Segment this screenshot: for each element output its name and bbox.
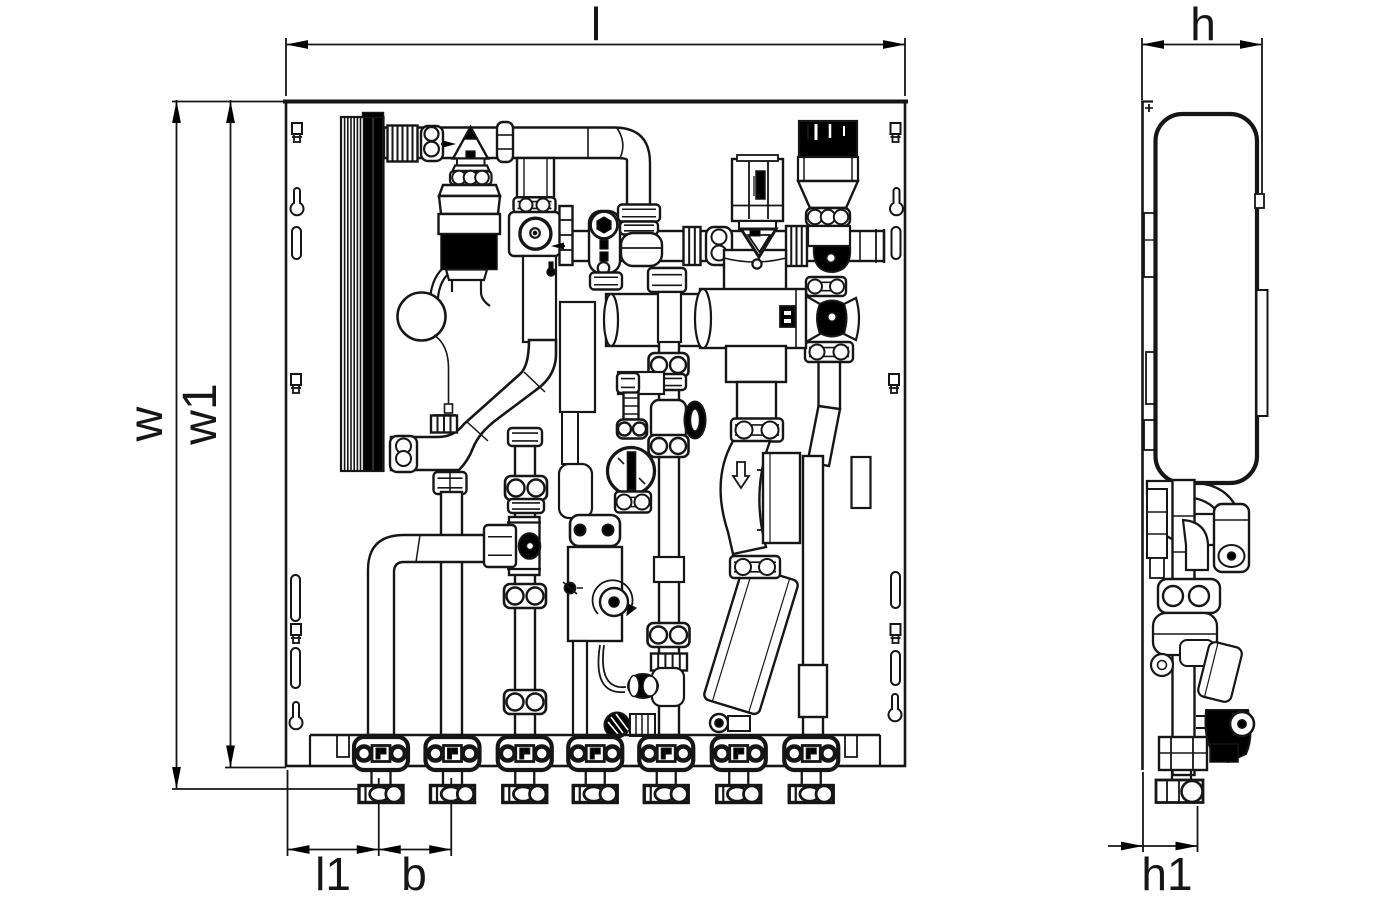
- T-stub with hex on column4: [617, 372, 664, 394]
- bottom connection block 1: [354, 737, 408, 770]
- end cap of middle pipe: [876, 229, 884, 263]
- column5 union c: [648, 623, 690, 647]
- flowmeter plate: [757, 453, 800, 543]
- side cluster: pump cylinder: [1214, 504, 1249, 572]
- pump housing: [509, 212, 560, 256]
- union above bottom pump: [617, 420, 647, 439]
- dimension l (top width of front view): [286, 0, 905, 96]
- vessel side notch: [1255, 194, 1264, 208]
- capillary tube to sensor pod: [598, 645, 626, 692]
- dimensions l1 and b (bottom connection spacing): [288, 770, 452, 900]
- connection stub pipes 1: [372, 770, 391, 786]
- panel slot: right slot lower-a: [891, 572, 900, 608]
- dimension w (overall height, left): [120, 100, 359, 789]
- thermostatic head cone: [798, 181, 858, 208]
- side bracket plate: [1257, 290, 1268, 416]
- column3 union pair lower: [504, 584, 546, 608]
- side union block: [1159, 737, 1207, 770]
- bottom pump volute: [608, 448, 655, 495]
- column5 white segment: [654, 557, 684, 582]
- elbow below mixing valve: [726, 346, 786, 382]
- column3 union bottom: [504, 690, 546, 714]
- svg-text:l1: l1: [315, 848, 351, 900]
- panel slot: right screw middle: [889, 374, 899, 393]
- sensor pod (black rings): [628, 674, 658, 698]
- automatic air vent (triangle): [450, 127, 492, 185]
- column5 hex pair: [656, 374, 686, 390]
- dimension w1 (panel height, left): [174, 100, 286, 768]
- threaded fitting left of motor valve: [684, 227, 701, 265]
- bottom connection block 7: [784, 737, 838, 770]
- side nut stub pipes: [1172, 770, 1191, 780]
- union pair below thermostatic valve: [806, 277, 846, 296]
- union nut below block 5: [644, 786, 688, 803]
- union nut below block 2: [431, 786, 475, 803]
- side mid blobs: [1151, 613, 1217, 676]
- panel slot: left keyhole bottom: [290, 702, 303, 729]
- column5 hex under manifold: [648, 268, 686, 292]
- air separator body: [439, 185, 501, 280]
- canister bottom sensor: [710, 714, 750, 732]
- thermostatic head (black cap): [799, 121, 857, 157]
- union nut below block 3: [503, 786, 547, 803]
- connection stub pipes 3: [515, 770, 534, 786]
- column3 hex at S-pipe: [508, 428, 542, 446]
- separator outlet neck: [452, 280, 490, 306]
- heat exchanger bottom union: [390, 436, 417, 472]
- bracket small parts upper: [1144, 213, 1155, 450]
- flow direction arrow on top pipe: [441, 141, 456, 148]
- bottom connection block 4: [568, 737, 622, 770]
- union on diagonal feed: [805, 342, 853, 362]
- column2 riser pipe: [441, 492, 462, 735]
- side cluster: wide elbow from vessel: [1147, 481, 1243, 545]
- second ball valve on mixing valve outlet: [802, 296, 859, 342]
- bypass valve housing: [589, 211, 620, 274]
- short riser below union: [819, 362, 841, 409]
- left port cylinder of mixing valve: [604, 294, 702, 346]
- column5 cylinder: [658, 292, 681, 342]
- pipe seam marks: [416, 535, 496, 562]
- left sub-column below port: [559, 302, 595, 518]
- svg-text:b: b: [401, 848, 427, 900]
- panel slot: left slot lower-b: [291, 648, 300, 688]
- expansion loop circle: [398, 293, 446, 341]
- slanted filter canister: [703, 565, 799, 716]
- union nut below block 6: [717, 786, 761, 803]
- panel slot: left keyhole top: [290, 188, 303, 215]
- svg-text:l: l: [591, 0, 601, 50]
- connection stub pipes 5: [657, 770, 676, 786]
- striped coupling right of pump: [560, 206, 573, 265]
- top pipe from heat exchanger to right elbow: [384, 128, 650, 207]
- expansion vessel (side): [1156, 114, 1258, 483]
- flow arrow on pump housing: [551, 243, 565, 250]
- bottom connection block 5: [639, 737, 693, 770]
- side small stack left: [1147, 489, 1167, 578]
- pump union pair: [514, 197, 556, 213]
- panel slot: right slot top: [892, 227, 901, 259]
- column4 riser to rail: [573, 641, 587, 735]
- side elbow inner pipe: [1183, 520, 1208, 570]
- panel slot: right keyhole bottom: [889, 694, 902, 721]
- hex below bottom pump: [615, 492, 651, 513]
- panel slot: right screw top: [891, 123, 901, 142]
- panel slot: right screw lower: [891, 624, 901, 643]
- side slanted canister: [1197, 641, 1244, 704]
- mixing valve main cylinder: [695, 289, 806, 348]
- bottom connection block 6: [712, 737, 766, 770]
- neck pipe below elbow: [737, 382, 776, 423]
- side main pipe: [1173, 480, 1195, 775]
- bottom-left horizontal pipe with elbow: [368, 535, 504, 735]
- panel slot: right slot lower-b: [891, 651, 900, 685]
- connection stub pipes 6: [729, 770, 748, 786]
- connection stub pipes 2: [443, 770, 462, 786]
- panel slot: left screw lower: [291, 624, 301, 643]
- column5 sensor bulb: [652, 668, 684, 706]
- plate gauge circle with dot: [593, 580, 636, 616]
- panel slot: left slot top: [292, 227, 301, 259]
- drain valve black circles: [605, 713, 656, 738]
- riser wide segment: [799, 665, 827, 717]
- vertical coupling on top pipe: [497, 122, 513, 162]
- panel slot: left screw middle: [291, 374, 301, 393]
- pump outlet neck: [523, 256, 556, 342]
- column3 valve with black ball: [507, 517, 541, 575]
- circulation pump (front round): [520, 218, 551, 249]
- side union circles: [1158, 579, 1220, 613]
- curved drop pipe with flow arrow: [721, 441, 770, 554]
- ball fitting under elbow: [621, 233, 662, 266]
- side view wall bracket line: [1141, 101, 1153, 770]
- bottom connection block 2: [426, 737, 480, 770]
- union nut below block 1: [359, 786, 403, 803]
- wide vertical pipe above manifold: [724, 250, 786, 290]
- thermostatic valve body (black ball): [808, 226, 850, 272]
- small drain dot left of plate: [563, 582, 583, 594]
- bottom connection block 3: [498, 737, 552, 770]
- svg-text:w1: w1: [174, 383, 227, 445]
- column3 riser pipe: [515, 430, 535, 735]
- hex below bypass housing: [590, 273, 622, 290]
- union nut below block 4: [573, 786, 617, 803]
- panel slot: right keyhole top: [890, 188, 903, 215]
- bottom-right riser pipe: [803, 456, 823, 735]
- motor valve body (triangle): [741, 229, 776, 269]
- controller plate: [568, 547, 622, 641]
- striped rod: [624, 393, 639, 420]
- side bottom hex nut: [1156, 780, 1203, 803]
- plate heat exchanger (hatched block): [341, 113, 384, 472]
- column5 union b: [649, 435, 689, 457]
- bottom mounting rail: [310, 735, 880, 766]
- threaded fitting right of motor valve: [786, 226, 807, 266]
- hex pair under top elbow: [618, 205, 660, 235]
- thermostatic valve union: [806, 208, 850, 226]
- dimension h (top of side view): [1142, 0, 1262, 196]
- motor valve flange: [739, 221, 776, 229]
- wide S-bend pipe from pump to heat exchanger connector: [391, 340, 556, 470]
- panel slot: left slot lower-a: [291, 575, 300, 621]
- elbow hex fitting: [484, 525, 516, 567]
- connection stub pipes 7: [802, 770, 821, 786]
- svg-text:h: h: [1190, 0, 1216, 50]
- canister top union: [730, 556, 780, 578]
- tee hex pair down to riser: [434, 472, 467, 494]
- mounting panel outline (front view): [283, 101, 908, 766]
- motor valve actuator head: [732, 155, 783, 221]
- column3 union pair upper: [505, 476, 547, 513]
- union nut below block 7: [789, 786, 833, 803]
- sensor boss on S-bend elbow: [431, 415, 457, 433]
- union with two sight circles: [421, 126, 443, 161]
- svg-text:h1: h1: [1141, 848, 1192, 900]
- union left of motor valve: [706, 227, 732, 265]
- svg-text:w: w: [120, 406, 173, 442]
- middle horizontal pipe (return line): [572, 231, 884, 261]
- thermostatic head scale band: [798, 157, 858, 181]
- side black valve: [1196, 710, 1254, 762]
- column5 riser pipe: [659, 268, 679, 735]
- column5 threaded: [651, 654, 687, 671]
- threaded union at heat exchanger outlet: [388, 126, 418, 162]
- panel slot: left screw top: [292, 123, 302, 142]
- column5 union a: [649, 353, 689, 377]
- connection stub pipes 4: [586, 770, 605, 786]
- column5 ball valve with side socket: [651, 400, 706, 440]
- diagonal pipe to bottom riser: [808, 406, 841, 466]
- pump inlet cylinder: [517, 158, 554, 198]
- bracket plate right: [852, 457, 871, 508]
- bracket with screws above plate: [570, 515, 620, 546]
- union under mixing valve: [731, 419, 783, 442]
- dimension h1 (side view depth): [1108, 772, 1198, 900]
- pipe from separator to expansion loop: [434, 263, 455, 298]
- capillary wire from circle to sensor: [434, 335, 453, 413]
